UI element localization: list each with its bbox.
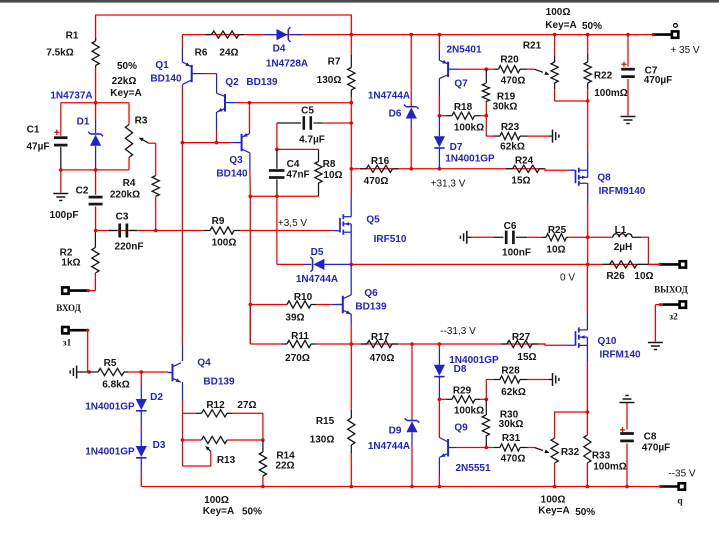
svg-text:R17: R17 — [371, 332, 390, 343]
svg-text:220kΩ: 220kΩ — [110, 190, 140, 201]
svg-text:C2: C2 — [76, 186, 89, 197]
resistor R10 — [250, 292, 331, 324]
svg-text:BD139: BD139 — [203, 377, 235, 388]
junction R29 right — [485, 398, 489, 402]
svg-text:100kΩ: 100kΩ — [454, 406, 484, 417]
svg-text:22Ω: 22Ω — [275, 461, 294, 472]
connector pad input — [62, 287, 90, 293]
resistor R33 — [584, 412, 627, 487]
wire Q4 emitter to R12 — [182, 399, 184, 413]
svg-text:Q1: Q1 — [155, 60, 169, 71]
svg-text:Q6: Q6 — [364, 288, 378, 299]
junction Q7 base R19 R20 — [485, 67, 489, 71]
svg-text:Q7: Q7 — [454, 79, 468, 90]
junction rail D9 — [410, 485, 414, 489]
wire Q5 source down — [350, 232, 352, 264]
junction output x587 — [586, 263, 590, 267]
svg-text:R1: R1 — [66, 31, 79, 42]
svg-text:R23: R23 — [501, 122, 520, 133]
transistor Q4 BD139 — [168, 358, 235, 388]
svg-text:100nF: 100nF — [502, 248, 531, 259]
wire з1 down to R5 node — [88, 330, 89, 372]
wire VAS node row — [250, 102, 352, 104]
svg-text:C8: C8 — [644, 431, 657, 442]
pot R32 value labels 100Ω Key=A 50% — [538, 495, 595, 518]
svg-text:R31: R31 — [502, 433, 521, 444]
svg-text:C6: C6 — [504, 221, 517, 232]
svg-text:+ 35 V: + 35 V — [670, 45, 700, 56]
svg-text:100Ω: 100Ω — [541, 495, 566, 506]
svg-text:270Ω: 270Ω — [285, 353, 310, 364]
resistor R29 — [439, 386, 486, 417]
wire R3 wiper — [149, 142, 156, 144]
ground at R23 — [549, 130, 559, 143]
resistor R1 — [46, 31, 99, 103]
svg-text:10Ω: 10Ω — [546, 245, 565, 256]
mosfet Q5 IRF510 — [332, 214, 407, 245]
potentiometer R3 — [125, 103, 148, 170]
svg-text:2N5551: 2N5551 — [455, 463, 490, 474]
pot R3 value labels 50% 22kΩ Key=A — [110, 61, 141, 99]
svg-text:C1: C1 — [27, 125, 40, 136]
resistor R4 — [110, 176, 159, 231]
resistor R30 — [482, 399, 523, 447]
resistor R5 — [89, 358, 168, 391]
zener diode D1 1N4737A — [50, 91, 103, 170]
svg-text:50%: 50% — [242, 507, 262, 518]
wire R19 col to R23 — [485, 116, 487, 136]
svg-text:R4: R4 — [123, 178, 136, 189]
capacitor C2 — [50, 170, 103, 231]
junction loop bottom left — [59, 168, 63, 172]
svg-text:ВХОД: ВХОД — [56, 303, 81, 313]
junction rail R14 — [261, 485, 265, 489]
capacitor C7 — [621, 35, 673, 124]
capacitor C4 — [269, 149, 310, 196]
junction rail Q6 emitter — [350, 342, 354, 346]
mosfet Q10 IRFM140 — [538, 327, 641, 360]
svg-text:R10: R10 — [294, 292, 313, 303]
svg-text:100pF: 100pF — [50, 210, 79, 221]
svg-text:30kΩ: 30kΩ — [499, 419, 524, 430]
wire D1 loop bottom — [60, 169, 130, 171]
resistor R24 — [506, 156, 544, 187]
diode D7 1N4001GP — [434, 116, 495, 169]
wire Q10 gate — [538, 344, 568, 345]
junction rail R33 — [586, 485, 590, 489]
wire Q10 to R32 top — [555, 412, 588, 438]
svg-text:R6: R6 — [195, 48, 208, 59]
svg-text:470Ω: 470Ω — [501, 454, 526, 465]
wire Q1 emitter column — [181, 85, 183, 143]
svg-text:R13: R13 — [217, 455, 236, 466]
junction C3 node — [94, 229, 98, 233]
svg-text:1N4728A: 1N4728A — [266, 59, 308, 70]
resistor R23 — [486, 122, 549, 153]
svg-text:47nF: 47nF — [286, 170, 309, 181]
connector pad з2 — [648, 263, 661, 266]
svg-text:15Ω: 15Ω — [511, 176, 530, 187]
wire output row — [351, 263, 660, 265]
connector pad output right — [661, 261, 686, 267]
diode D2 1N4001GP — [85, 372, 163, 427]
resistor R17 — [361, 332, 398, 364]
wire R21 R22 bottom loop — [555, 100, 588, 102]
resistor R18 — [439, 102, 486, 134]
svg-text:R25: R25 — [548, 225, 567, 236]
svg-text:+3,5 V: +3,5 V — [278, 218, 308, 229]
wire Q3 base row — [182, 142, 232, 144]
svg-text:10Ω: 10Ω — [634, 271, 653, 282]
resistor R2 — [60, 231, 99, 291]
svg-text:Q2: Q2 — [225, 77, 239, 88]
capacitor C8 — [620, 396, 671, 487]
wire Q8 drain to output — [587, 203, 589, 264]
wire pad to R2 — [88, 290, 95, 292]
capacitor C1 — [27, 103, 68, 170]
svg-text:D9: D9 — [389, 426, 402, 437]
svg-text:ВЫХОД: ВЫХОД — [654, 285, 688, 295]
junction R33 top — [586, 410, 590, 414]
junction rail D8 top — [438, 342, 442, 346]
svg-text:R21: R21 — [523, 41, 542, 52]
svg-text:+31,3 V: +31,3 V — [431, 179, 466, 190]
svg-text:100kΩ: 100kΩ — [454, 123, 484, 134]
junction Q2 emitter base row — [215, 141, 219, 145]
wire +3.5V rail — [96, 230, 204, 232]
svg-text:R7: R7 — [328, 57, 341, 68]
svg-text:50%: 50% — [117, 61, 137, 72]
wire top-left loop — [96, 15, 352, 40]
junction R18 left — [438, 114, 442, 118]
junction rail C8 — [625, 485, 629, 489]
svg-text:з1: з1 — [63, 339, 72, 349]
wire Q8 drain down blue — [587, 183, 589, 203]
transistor Q9 2N5551 — [439, 423, 491, 475]
svg-text:R5: R5 — [104, 358, 117, 369]
wire -31,3V rail — [351, 343, 545, 345]
svg-text:R20: R20 — [500, 55, 519, 66]
svg-text:IRFM9140: IRFM9140 — [599, 186, 646, 197]
svg-text:Q5: Q5 — [366, 215, 380, 226]
svg-text:1N4744A: 1N4744A — [368, 91, 410, 102]
wire x351 to Q5 drain — [350, 169, 352, 198]
svg-text:62kΩ: 62kΩ — [500, 142, 525, 153]
junction rail R22 — [586, 33, 590, 37]
svg-text:IRF510: IRF510 — [374, 234, 407, 245]
resistor R26 — [603, 261, 654, 282]
wire Q4 collector up — [182, 345, 184, 361]
wire Q9 emitter — [438, 458, 440, 476]
junction rail R32 — [553, 485, 557, 489]
svg-text:D4: D4 — [273, 44, 286, 55]
transistor Q7 2N5401 — [439, 35, 482, 90]
junction x351 31V rail — [350, 167, 354, 171]
svg-text:R32: R32 — [561, 447, 580, 458]
svg-text:R16: R16 — [371, 156, 390, 167]
svg-text:470µF: 470µF — [642, 442, 671, 453]
wire Q9 collector — [438, 399, 440, 437]
ground at R5 — [70, 366, 89, 379]
svg-text:100mΩ: 100mΩ — [593, 462, 627, 473]
svg-text:R24: R24 — [515, 156, 534, 167]
svg-text:470Ω: 470Ω — [364, 176, 389, 187]
window top edge bar — [0, 0, 719, 3]
svg-text:1N4744A: 1N4744A — [368, 441, 410, 452]
junction D1 bottom — [94, 168, 98, 172]
resistor R14 — [259, 440, 295, 487]
resistor R9 — [204, 216, 332, 249]
junction rail Q7 — [438, 33, 442, 37]
svg-text:100Ω: 100Ω — [212, 238, 237, 249]
svg-text:1kΩ: 1kΩ — [61, 258, 80, 269]
svg-text:100Ω: 100Ω — [546, 7, 571, 18]
svg-text:130Ω: 130Ω — [310, 435, 335, 446]
transistor Q1 BD140 — [150, 35, 203, 85]
wire Q5 drain lead — [350, 198, 352, 217]
svg-text:R27: R27 — [512, 332, 531, 343]
wire x351 VAS to C5 — [350, 103, 352, 123]
junction Q2 base node — [248, 101, 252, 105]
svg-text:1N4001GP: 1N4001GP — [445, 154, 495, 165]
wire Q1 column to Q4 — [181, 143, 183, 345]
wire D1 loop top — [61, 102, 129, 104]
svg-text:50%: 50% — [582, 21, 602, 32]
svg-text:BD140: BD140 — [150, 74, 182, 85]
svg-text:R33: R33 — [592, 451, 611, 462]
resistor R27 — [501, 332, 538, 363]
wire Q10 source to R32 R33 — [586, 363, 588, 412]
wire +35V top rail — [182, 34, 654, 36]
wire Q2 emitter down — [216, 130, 218, 143]
svg-text:R29: R29 — [453, 386, 472, 397]
junction base row left — [181, 141, 185, 145]
wire R13 wiper loop — [183, 452, 211, 467]
pot R13 value labels 100Ω Key=A 50% — [203, 495, 262, 517]
svg-text:Q9: Q9 — [454, 423, 468, 434]
junction rail R15 — [350, 485, 354, 489]
resistor R28 — [486, 365, 549, 399]
resistor R16 — [360, 156, 399, 187]
svg-text:R18: R18 — [454, 102, 473, 113]
svg-text:470µF: 470µF — [644, 75, 673, 86]
svg-text:1N4001GP: 1N4001GP — [85, 447, 135, 458]
junction rail31 D6 — [409, 167, 413, 171]
connector pad +35V — [651, 24, 700, 57]
resistor R8 — [315, 149, 343, 196]
svg-text:q: q — [677, 496, 683, 506]
svg-text:D1: D1 — [77, 116, 90, 127]
svg-text:BD140: BD140 — [216, 169, 248, 180]
svg-text:1N4737A: 1N4737A — [50, 91, 92, 102]
wire Q10 drain up blue — [586, 313, 588, 330]
svg-text:R26: R26 — [606, 271, 625, 282]
junction R10 branch — [249, 303, 253, 307]
svg-text:BD139: BD139 — [355, 302, 387, 313]
pot R21 value labels 100Ω Key=A 50% — [545, 7, 602, 32]
junction R4 bottom — [154, 229, 158, 233]
wire L1 to R26 corner — [641, 237, 648, 264]
svg-text:62kΩ: 62kΩ — [501, 387, 526, 398]
wire Q2 base to node — [236, 102, 250, 104]
resistor R22 — [584, 35, 628, 101]
svg-text:BD139: BD139 — [246, 77, 278, 88]
potentiometer R13 — [183, 436, 263, 466]
junction rail R21 — [553, 33, 557, 37]
junction R1 bottom — [94, 101, 98, 105]
junction R30 bottom — [485, 446, 489, 450]
wire pad з2 branch — [648, 285, 689, 350]
svg-text:1N4001GP: 1N4001GP — [85, 402, 135, 413]
zener diode D9 1N4744A — [368, 344, 420, 487]
wire +31,3V rail — [351, 168, 545, 170]
svg-text:--35 V: --35 V — [668, 469, 696, 480]
svg-text:0 V: 0 V — [560, 273, 575, 284]
svg-text:Key=A: Key=A — [538, 506, 569, 517]
wire Q4 emitter down — [182, 382, 184, 399]
ground below C1 — [53, 170, 68, 201]
wire C5 left down — [276, 123, 278, 149]
junction rail x351 — [350, 33, 354, 37]
wire Q8 source to R22 — [587, 101, 589, 151]
svg-text:4.7µF: 4.7µF — [299, 135, 325, 146]
junction rail D9 top — [410, 342, 414, 346]
wire -35V bottom rail — [141, 486, 660, 488]
wire x351 C5 to 31V rail — [350, 123, 352, 169]
wire R12 right down — [262, 413, 264, 440]
wire loop bottom — [250, 195, 318, 197]
junction L1 R25 node — [586, 235, 590, 239]
svg-text:з2: з2 — [669, 312, 678, 322]
wire Q8 gate — [544, 169, 568, 170]
resistor R15 — [310, 344, 355, 487]
svg-text:Q8: Q8 — [597, 173, 611, 184]
junction R13 right — [261, 438, 265, 442]
junction C4 top — [275, 148, 279, 152]
svg-text:D5: D5 — [311, 247, 324, 258]
capacitor C3 — [109, 212, 143, 253]
svg-text:27Ω: 27Ω — [237, 400, 256, 411]
capacitor C6 — [472, 221, 542, 259]
svg-text:R28: R28 — [501, 365, 520, 376]
svg-text:470Ω: 470Ω — [370, 353, 395, 364]
wire Q7 base row — [459, 68, 486, 70]
svg-text:C5: C5 — [301, 106, 314, 117]
junction rail D6 — [409, 33, 413, 37]
transistor Q3 BD140 — [216, 103, 249, 180]
wire Q1 base to Q2 collector — [203, 73, 217, 75]
junction output x351 — [350, 263, 354, 267]
junction R5 left — [87, 370, 91, 374]
wire Q7 collector down — [438, 79, 440, 96]
svg-text:Key=A: Key=A — [545, 20, 576, 31]
wire Q9 emitter to rail — [438, 475, 440, 487]
zener diode D6 1N4744A — [368, 35, 419, 169]
svg-text:130Ω: 130Ω — [317, 75, 342, 86]
svg-text:15Ω: 15Ω — [517, 352, 536, 363]
resistor R31 — [486, 433, 534, 465]
svg-text:Key=A: Key=A — [110, 88, 141, 99]
svg-text:Key=A: Key=A — [203, 506, 234, 517]
resistor R19 — [482, 69, 517, 116]
wire Q10 drain to output — [586, 264, 588, 313]
junction R13 left — [181, 438, 185, 442]
svg-text:L1: L1 — [615, 225, 627, 236]
junction R18 right — [485, 114, 489, 118]
resistor R25 — [541, 225, 588, 256]
junction rail31 D7 — [438, 167, 442, 171]
connector pad з1 — [62, 327, 89, 349]
wire Q8 source up blue — [587, 151, 589, 170]
resistor R7 — [317, 35, 355, 103]
svg-text:7.5kΩ: 7.5kΩ — [46, 48, 73, 59]
svg-text:6.8kΩ: 6.8kΩ — [102, 380, 129, 391]
junction rail Q9 — [438, 485, 442, 489]
wire Q6 emitter to rail — [350, 325, 352, 344]
svg-text:1N4744A: 1N4744A — [296, 274, 338, 285]
wire Q3 collector down — [249, 170, 251, 196]
potentiometer R21 — [523, 35, 558, 101]
wire Q3 collector column — [249, 196, 251, 344]
svg-text:D8: D8 — [454, 364, 467, 375]
wire wiper down to R4 — [155, 143, 157, 175]
resistor R12 — [183, 400, 263, 417]
junction D2 top — [140, 370, 144, 374]
resistor R20 — [486, 55, 534, 87]
capacitor C5 — [277, 106, 351, 146]
diode D8 1N4001GP — [434, 344, 499, 399]
svg-text:D7: D7 — [450, 142, 463, 153]
svg-text:D6: D6 — [389, 109, 402, 120]
transistor Q2 BD139 — [217, 74, 278, 130]
svg-text:--31,3 V: --31,3 V — [440, 326, 476, 337]
diode D3 1N4001GP — [85, 427, 166, 473]
svg-text:2N5401: 2N5401 — [446, 45, 481, 56]
svg-text:39Ω: 39Ω — [285, 313, 304, 324]
junction C5 right — [350, 121, 354, 125]
svg-text:2µH: 2µH — [614, 242, 633, 253]
junction R29 left — [438, 398, 442, 402]
svg-text:22kΩ: 22kΩ — [112, 76, 137, 87]
junction rail C7 — [626, 33, 630, 37]
svg-text:Q4: Q4 — [197, 358, 211, 369]
mosfet Q8 IRFM9140 — [544, 168, 646, 198]
wire D3 to bottom rail — [140, 473, 142, 487]
junction R22 col loop — [586, 99, 590, 103]
svg-text:IRFM140: IRFM140 — [599, 350, 641, 361]
svg-text:R8: R8 — [323, 159, 336, 170]
junction C4 loop left — [249, 195, 253, 199]
svg-text:D3: D3 — [153, 440, 166, 451]
resistor R11 — [250, 305, 351, 365]
wire Q4 emitter rail down — [182, 413, 184, 466]
svg-text:D2: D2 — [150, 392, 163, 403]
svg-text:100Ω: 100Ω — [204, 495, 229, 506]
svg-text:Q10: Q10 — [598, 336, 617, 347]
ground at C6 — [460, 231, 471, 244]
wire loop top — [277, 148, 319, 150]
svg-text:R12: R12 — [206, 400, 225, 411]
ground at R28 — [549, 373, 559, 386]
svg-text:50%: 50% — [575, 507, 595, 518]
svg-text:30kΩ: 30kΩ — [493, 102, 518, 113]
svg-text:24Ω: 24Ω — [219, 48, 238, 59]
svg-text:R11: R11 — [291, 331, 309, 342]
transistor Q6 BD139 — [332, 264, 387, 325]
wire Q10 source down blue — [586, 345, 588, 362]
svg-text:100mΩ: 100mΩ — [594, 88, 628, 99]
junction loop bottom C4 — [275, 195, 279, 199]
